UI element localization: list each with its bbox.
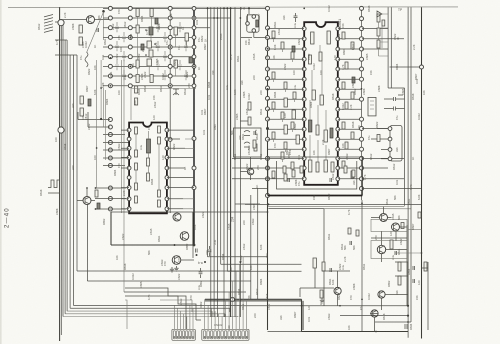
wire right column pair x388 [388, 7, 404, 88]
transistor Q301 [334, 287, 341, 294]
transistor Q103 [180, 232, 189, 241]
wire inner connections IC201 [310, 45, 326, 162]
amp box top edge [268, 156, 363, 158]
cascade step path B [125, 296, 201, 320]
cascade step path A [125, 288, 186, 329]
IC IC201 outline [304, 22, 338, 185]
wire corner x235 top [235, 203, 260, 205]
wires components mid [176, 35, 187, 76]
connector CN102 [202, 329, 249, 340]
wire corner x127 [125, 300, 127, 329]
wire extra rows right of IC101 [183, 139, 194, 209]
tiny polar marks [145, 29, 147, 31]
wires Q201 [240, 157, 250, 180]
wire bus x235 [234, 8, 236, 318]
IC IC101 pins right [165, 128, 169, 132]
wire center column x267.5 [267, 7, 269, 330]
relay can CP601 [390, 126, 402, 162]
capacitor pair below [199, 268, 203, 278]
square wave glyph W2 [48, 180, 60, 193]
wires bottom right cluster [370, 262, 428, 332]
connector CN101 [172, 329, 195, 340]
big connector circle P102 [58, 127, 64, 133]
IC IC101 inner components [135, 127, 138, 134]
wire bus x194 lower [192, 245, 194, 258]
junction end of bus x194 [193, 244, 196, 247]
rows from column x361.5 to right columns [362, 29, 421, 189]
caps inside module box [244, 131, 250, 148]
inner box top edge y208.6 [268, 209, 324, 306]
wire rows across left section [103, 8, 268, 85]
wire bus horizontal y271 [77, 270, 251, 272]
module boundary around IC101 [131, 89, 196, 121]
transistor Q302 [378, 291, 385, 298]
connector column J101 [108, 6, 112, 10]
junction node B [100, 118, 102, 120]
wire middle bus dark line [230, 8, 232, 318]
wire y315.6 horizontal [340, 315, 408, 317]
wire middle bus bundle [208, 8, 228, 318]
wires cluster to x388 [380, 28, 388, 42]
wire bus horizontal y292 [124, 291, 246, 293]
ground below Q301 [320, 298, 324, 303]
wire bus x240.4 [239, 8, 241, 318]
transistor Q303 [371, 310, 378, 317]
scan noise overlay [0, 0, 1, 1]
cascade step path C [160, 300, 192, 312]
capacitor C652 [405, 324, 407, 329]
diagonal pointer to waveform [87, 12, 104, 52]
resistor R101 [79, 25, 82, 33]
components column x136-153 [136, 9, 139, 17]
connector column J102 [128, 6, 132, 10]
thick bundle corner x301.5 down [302, 299, 304, 331]
rows lower mid left of center [232, 158, 267, 188]
wire row y67 to SP point [390, 66, 422, 68]
junction dot fan y262 [239, 261, 241, 263]
connector column x361.5 [361, 8, 363, 200]
device D201 rounded [247, 15, 259, 32]
components right mid [348, 228, 351, 234]
wire left bus line 4 [64, 40, 66, 314]
wire left bus line 2 [60, 22, 62, 335]
ground jack area [174, 266, 178, 271]
resistor R652 [320, 290, 323, 298]
wire y305.7 horizontal [240, 305, 408, 307]
wires relay pins [371, 129, 388, 159]
wire Q104 emitter right [181, 259, 194, 261]
big box below amp right edge [361, 200, 363, 332]
wire bus horizontal y316 [63, 316, 238, 318]
bottom right components [398, 262, 401, 271]
connector column J103 [169, 7, 171, 213]
transistor Q602 [392, 223, 400, 231]
wire top horizontal rule [8, 6, 458, 9]
wire mid stair 1 [208, 256, 268, 258]
pins center column [266, 6, 270, 10]
amp box thick sides and bottom [268, 157, 363, 196]
wire fan into connectors [212, 305, 240, 317]
ladder components left of IC201 [272, 31, 275, 38]
connector CN101 pin wires [174, 305, 193, 329]
top right component cluster [377, 14, 380, 22]
thick line y331.5 right [302, 331, 409, 333]
box around Q603 [371, 241, 407, 259]
module boundary lines below amp [245, 203, 421, 205]
wires right mid cluster [371, 207, 407, 306]
wire left bus line 8 [76, 55, 78, 271]
wire left bus line 6 [69, 55, 71, 308]
box around Q602 [371, 219, 407, 231]
big connector circle P101 [58, 20, 64, 26]
transistor Q201 [247, 168, 253, 174]
wire y288 from left [299, 288, 301, 297]
ground below Q104 [170, 267, 174, 272]
big box bottom thin [268, 331, 302, 333]
resistor R640 [377, 135, 380, 142]
cap stubs on rows [115, 22, 188, 80]
wire right column pair x408 [408, 7, 411, 338]
wire Q301 connections [300, 268, 350, 306]
IC IC201 pins left [302, 27, 306, 31]
wires linking component column [138, 17, 152, 75]
wire row y229 right [408, 228, 422, 230]
staircase corners left mid [78, 112, 88, 127]
component cluster left mid [80, 96, 83, 104]
components left of center column [248, 102, 251, 110]
wires Q105 [77, 188, 95, 281]
wire Q101 collector [95, 19, 111, 21]
junction connector circle mid-bottom [231, 298, 235, 302]
connector circle SP on x421 [420, 65, 424, 69]
transistor Q101 [87, 16, 95, 24]
transistor Q601 [380, 214, 388, 222]
junction dots at bus crossings [169, 46, 171, 48]
waveform squiggle W1 [85, 52, 88, 67]
amp box inner components [283, 166, 286, 173]
transistor Q102 [173, 213, 181, 221]
wire ladder rows right of IC201 [338, 29, 362, 179]
IC IC101 outline [129, 123, 167, 214]
components right of Q105 [95, 190, 98, 197]
ladder stub wires left [274, 38, 295, 162]
dark components extra [141, 44, 144, 50]
wire left bus line 7 [72, 55, 74, 305]
capacitor C101 [97, 28, 99, 32]
ladder components right of IC201 [342, 32, 345, 39]
wire bus horizontal y281 [87, 280, 250, 282]
thick bundle y299-301 [205, 299, 302, 301]
components cluster x282-302 upper mid [284, 98, 287, 107]
wire mid stair 3 [227, 270, 301, 272]
page left edge shade [0, 0, 2, 344]
IC IC201 pins right [336, 27, 340, 31]
transistor Q104 [172, 256, 181, 265]
amp box inner thin box [277, 161, 357, 189]
transistor Q105 [83, 197, 91, 205]
wire bus horizontal y313 [65, 313, 225, 315]
resistor R102 [79, 37, 82, 45]
wire Q101 base [61, 19, 87, 21]
IC IC201 inner components [311, 32, 314, 44]
shield box below IC101 [111, 212, 193, 245]
IC IC101 pins left [127, 128, 131, 132]
wire drop x124 to y292 [123, 230, 125, 292]
coil L101 hatch symbol [44, 15, 53, 33]
capacitor above IC201 [294, 13, 298, 22]
capacitor C604 [384, 107, 405, 111]
wire bus horizontal y305 [73, 304, 240, 306]
wire rows lower left [78, 120, 129, 210]
wire ladder rows left of IC201 [268, 29, 305, 179]
wire left bus line 5 [66, 40, 68, 311]
junction dot on box bottom [174, 244, 176, 246]
small module box mid [234, 128, 262, 157]
wire left verticals inner [97, 12, 106, 188]
wire y212 left [111, 211, 268, 213]
component x134 y86 [135, 86, 138, 93]
connector CN102 pin wires [205, 257, 247, 329]
junction dot on center column [266, 127, 269, 130]
component C202 [174, 60, 178, 68]
junction node A [102, 10, 105, 13]
wire IC101 pin rows right [167, 130, 194, 209]
wire mid stair 2 [221, 263, 302, 265]
components right cluster upper [390, 240, 393, 249]
verticals x250.8 x257.7 [251, 188, 258, 299]
component R201 [185, 33, 189, 41]
pin circle x170 y139.5 [168, 138, 172, 142]
wire bus horizontal y308 [70, 307, 230, 309]
IC IC101 inner wires [136, 131, 159, 190]
capacitor C210 [196, 249, 198, 253]
components right x376-384 y20-50 [382, 20, 385, 26]
wire bus top stubs [55, 22, 77, 55]
wire y322 horizontal [375, 321, 411, 323]
component C201 [174, 27, 178, 35]
wire right column x404.5 [404, 88, 406, 206]
wire row y121 stub [240, 120, 248, 122]
small IC box right mid [368, 97, 376, 116]
wire left bus line 1 dark [59, 7, 61, 341]
wire right dark column x421.5 [421, 7, 423, 338]
wire left bus line 3 [62, 22, 64, 317]
wires D201 [241, 8, 268, 37]
main bus line thick x194 [193, 7, 195, 245]
wire vertical pair x121 x124 [122, 60, 125, 230]
component D604 [401, 223, 404, 229]
wire IC101 pin rows left [121, 130, 129, 209]
wire bus horizontal y311 [67, 310, 212, 312]
capacitor C603 [384, 95, 405, 101]
capacitor C211 [208, 246, 212, 256]
cluster small caps x173 y89 [173, 89, 179, 95]
wire x382 down [381, 26, 383, 48]
components above Q301 [313, 258, 316, 268]
transistor Q603 [377, 245, 385, 253]
